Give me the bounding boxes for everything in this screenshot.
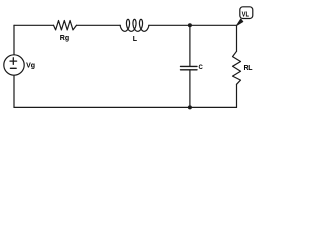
node dot top xyxy=(188,23,192,27)
wire top-left horizontal xyxy=(14,24,54,26)
capacitor C plates xyxy=(181,66,198,69)
wire Rg to L xyxy=(77,24,121,26)
VL probe box xyxy=(240,7,253,19)
voltage source minus sign xyxy=(10,67,16,69)
wire right vertical lower xyxy=(236,84,238,107)
resistor Rg xyxy=(54,21,77,30)
wire bottom horizontal xyxy=(14,106,237,108)
VL probe arrow xyxy=(236,19,243,26)
svg-text:L: L xyxy=(133,36,138,43)
svg-text:Vg: Vg xyxy=(26,63,35,70)
wire left vertical (source top lead) xyxy=(13,25,15,55)
voltage source plus sign xyxy=(10,58,17,65)
voltage source Vg circle xyxy=(4,55,24,75)
svg-text:C: C xyxy=(199,65,204,71)
wire L to node xyxy=(149,24,190,26)
svg-text:VL: VL xyxy=(242,9,250,18)
inductor L xyxy=(120,19,149,31)
svg-text:RL: RL xyxy=(244,65,254,72)
wire capacitor top lead xyxy=(189,25,191,66)
svg-text:Rg: Rg xyxy=(60,35,69,42)
resistor RL xyxy=(233,51,241,84)
node dot bottom xyxy=(188,105,192,109)
wire left vertical (source bottom lead) xyxy=(13,75,15,107)
wire right vertical upper xyxy=(236,25,238,51)
wire capacitor bottom lead xyxy=(189,70,191,108)
wire node to top-right corner xyxy=(190,24,237,26)
